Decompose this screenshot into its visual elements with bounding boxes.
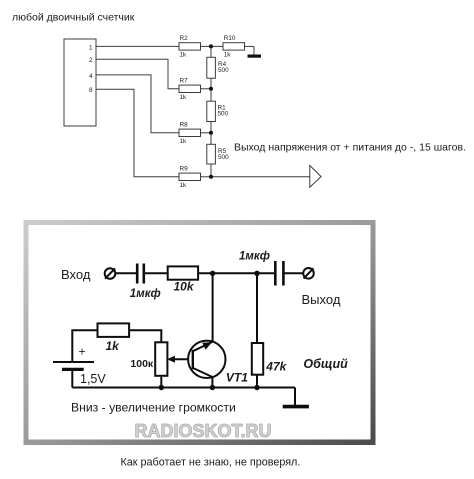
svg-text:1k: 1k [180,94,188,101]
svg-text:любой двоичный счетчик: любой двоичный счетчик [12,12,135,24]
svg-text:R8: R8 [180,121,189,128]
svg-text:1k: 1k [180,182,188,189]
svg-text:R9: R9 [180,165,189,172]
svg-text:1k: 1k [224,52,232,59]
svg-text:8: 8 [89,87,93,94]
svg-text:1k: 1k [180,138,188,145]
svg-text:2: 2 [89,57,93,64]
svg-text:Вход: Вход [61,267,91,282]
svg-text:1k: 1k [180,52,188,59]
svg-text:1: 1 [89,44,93,51]
svg-text:Выход напряжения от + питания: Выход напряжения от + питания до -, 15 ш… [234,142,466,154]
svg-text:VT1: VT1 [226,371,248,385]
svg-text:Как работает не знаю, не прове: Как работает не знаю, не проверял. [121,457,301,469]
svg-text:+: + [79,345,86,359]
svg-text:R7: R7 [180,77,189,84]
svg-text:1мкф: 1мкф [130,288,161,300]
svg-text:47k: 47k [265,360,287,374]
svg-text:1мкф: 1мкф [239,251,270,263]
svg-text:500: 500 [218,67,229,74]
svg-text:1,5V: 1,5V [80,372,106,386]
svg-text:RADIOSKOT.RU: RADIOSKOT.RU [135,421,272,441]
svg-text:500: 500 [218,111,229,118]
svg-text:10k: 10k [174,280,195,294]
svg-text:4: 4 [89,73,93,80]
svg-text:R10: R10 [224,35,236,42]
svg-text:100к: 100к [130,358,154,370]
svg-text:Выход: Выход [302,292,341,307]
svg-text:Общий: Общий [303,357,348,371]
svg-text:Вниз - увеличение громкости: Вниз - увеличение громкости [71,401,236,415]
svg-text:1k: 1k [106,339,121,353]
svg-text:R2: R2 [180,35,189,42]
svg-text:500: 500 [218,154,229,161]
